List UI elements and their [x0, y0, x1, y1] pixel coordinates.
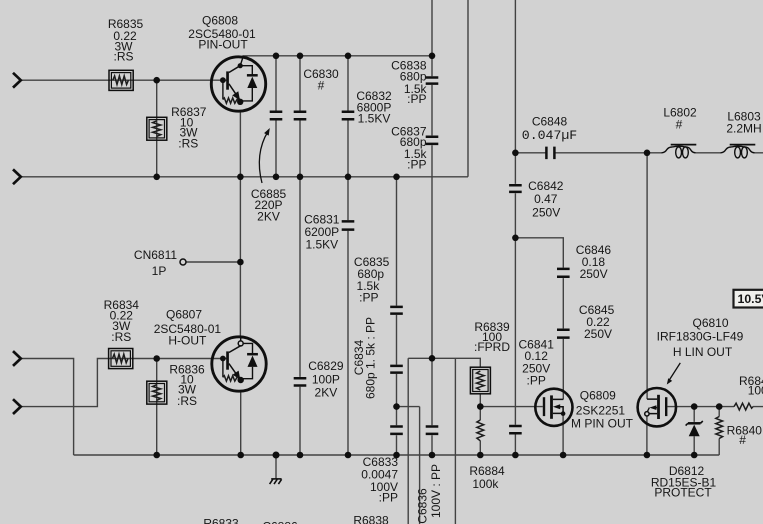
- svg-text::RS: :RS: [111, 330, 131, 344]
- wire lower input B to R6834 and Q6807 base: [21, 359, 227, 407]
- svg-text:250V: 250V: [584, 327, 612, 341]
- capacitor C6848: [546, 147, 554, 160]
- wire Q6809 source to rail: [562, 414, 564, 455]
- svg-text:#: #: [318, 79, 325, 93]
- label Q6809: [571, 388, 634, 430]
- svg-text:0.047µF: 0.047µF: [522, 128, 577, 143]
- wire D6812 stubs: [693, 407, 695, 455]
- node dots emitter rail y177: [153, 174, 399, 181]
- wire emitter return top (rail to x468 riser): [21, 176, 468, 178]
- svg-text:1.5KV: 1.5KV: [305, 237, 338, 251]
- node dot x480 y406: [477, 403, 484, 410]
- svg-text:R6884: R6884: [469, 464, 505, 478]
- label R6835: [108, 17, 144, 64]
- capacitor C6829: [294, 378, 307, 385]
- node dot x515 y238: [512, 235, 519, 242]
- wire flyback node y153: [515, 152, 763, 154]
- label C6846: [576, 243, 612, 281]
- svg-text:C6848: C6848: [532, 115, 568, 129]
- svg-text:10.5V: 10.5V: [738, 292, 763, 306]
- wire Q6808 emitter to Q6807 collector: [239, 111, 241, 337]
- wire C6830 C6829 branch: [299, 56, 301, 455]
- resistor R6839: [470, 367, 490, 394]
- wire R6837 branch: [156, 80, 158, 177]
- svg-text::RS: :RS: [113, 50, 133, 64]
- svg-text:2KV: 2KV: [315, 386, 338, 400]
- svg-text:M PIN OUT: M PIN OUT: [571, 416, 634, 430]
- label R6839: [474, 320, 510, 354]
- wire riser x515 C6842 C6841: [514, 0, 516, 455]
- resistor R6837: [147, 117, 167, 140]
- label C6885: [251, 187, 287, 224]
- svg-text:250V: 250V: [580, 267, 608, 281]
- svg-text:C6842: C6842: [528, 179, 564, 193]
- resistor R6836: [147, 381, 167, 404]
- wire ground stub: [275, 455, 277, 479]
- label R6840: [727, 423, 763, 446]
- node dot wire1 R6837: [153, 77, 160, 84]
- svg-text:2.2MH: 2.2MH: [726, 122, 761, 136]
- capacitor C6838: [426, 78, 439, 84]
- label C6837: [391, 125, 427, 172]
- svg-text:#: #: [739, 433, 746, 447]
- resistor R6840: [716, 417, 723, 439]
- wire node y406 left segment: [397, 406, 420, 408]
- mosfet Q6809: [535, 389, 572, 426]
- svg-text::PP: :PP: [379, 491, 398, 505]
- svg-text:100k: 100k: [472, 477, 499, 491]
- svg-text::PP: :PP: [527, 373, 546, 387]
- node dot CN6811 junction: [237, 259, 244, 266]
- wire gate net Q6810 right: [667, 406, 763, 408]
- svg-text:100V : PP: 100V : PP: [429, 464, 443, 518]
- wire C6838 C6837 C6836 riser x432: [431, 0, 433, 455]
- svg-text:H LIN OUT: H LIN OUT: [673, 345, 733, 359]
- capacitor C6885: [270, 112, 283, 119]
- svg-text:100P: 100P: [312, 373, 340, 387]
- svg-text:C6836: C6836: [415, 488, 429, 524]
- label C6829: [308, 359, 344, 400]
- node dots flyback y153: [512, 150, 650, 157]
- node dots bottom rail: [153, 452, 697, 459]
- resistor R6835: [109, 70, 133, 90]
- wire drop x455.4 to bottom edge: [454, 358, 456, 524]
- wire gate drive Q6809: [480, 406, 543, 408]
- wire drop x419.6 to bottom edge: [419, 407, 421, 524]
- svg-text:PROTECT: PROTECT: [654, 486, 712, 500]
- label C6831: [304, 213, 340, 252]
- label R6837: [171, 105, 207, 150]
- svg-text::RS: :RS: [178, 137, 198, 151]
- capacitor C6833: [390, 427, 403, 434]
- svg-text:C6829: C6829: [308, 359, 344, 373]
- label C6836 rotated: [415, 464, 443, 524]
- label C6830: [303, 67, 339, 92]
- svg-text::PP: :PP: [407, 92, 426, 106]
- ground: [270, 479, 282, 484]
- label L6802: [663, 106, 697, 132]
- wire R6840 stubs: [718, 407, 720, 455]
- label C6838: [391, 58, 427, 106]
- wire drop x408.2 to bottom edge: [407, 358, 409, 524]
- label C6833: [361, 455, 398, 505]
- svg-text:C6886: C6886: [262, 520, 298, 524]
- label R6884: [469, 464, 505, 491]
- svg-text:100: 100: [748, 384, 763, 398]
- capacitor C6837: [426, 137, 439, 144]
- capacitor C6835: [390, 307, 403, 314]
- svg-text:Q6810: Q6810: [692, 316, 728, 330]
- svg-text:0.47: 0.47: [534, 192, 558, 206]
- wire CN6811 link: [186, 261, 240, 263]
- wire y358 link segment: [408, 358, 480, 367]
- capacitor C6845: [557, 330, 570, 338]
- resistor R6841: [734, 403, 753, 410]
- wire riser x468 to top edge: [467, 0, 469, 177]
- capacitor C6841: [509, 426, 522, 433]
- input chevron 1: [13, 73, 21, 88]
- zener diode D6812: [686, 421, 703, 436]
- label C6842: [528, 179, 564, 220]
- capacitor C6836: [426, 427, 439, 434]
- connector CN6811: [180, 259, 186, 265]
- svg-text:1.5KV: 1.5KV: [358, 111, 391, 125]
- label D6812: [651, 464, 717, 500]
- label Q6807: [154, 308, 222, 348]
- input chevron 3: [13, 351, 21, 366]
- wire bottom rail: [74, 454, 720, 456]
- node dots gate net right: [691, 403, 723, 410]
- capacitor C6842: [509, 185, 522, 192]
- node dot x432 y358: [429, 355, 436, 362]
- pointer arrow Q6810: [667, 363, 681, 385]
- label R6836: [169, 362, 205, 408]
- wire base drive top (net to Q6808 base): [21, 79, 227, 81]
- node dot wire3 R6836: [153, 355, 160, 362]
- capacitor C6832: [342, 112, 355, 119]
- svg-text:680p 1. 5k : PP: 680p 1. 5k : PP: [363, 317, 377, 399]
- wire lower input A to bottom rail: [21, 359, 74, 456]
- label CN6811: [134, 248, 177, 278]
- inductor L6802: [662, 145, 697, 158]
- svg-text::RS: :RS: [177, 394, 197, 408]
- wire R6839 to R6884 column: [479, 394, 481, 455]
- svg-text:R6833: R6833: [203, 517, 239, 524]
- svg-text:1P: 1P: [152, 264, 167, 278]
- label C6848: [522, 115, 577, 143]
- wire C6832 C6831 branch: [347, 56, 349, 455]
- svg-text:IRF1830G-LF49: IRF1830G-LF49: [657, 330, 744, 344]
- svg-text:#: #: [676, 118, 683, 132]
- capacitor C6846: [557, 269, 570, 277]
- mosfet Q6810: [638, 388, 676, 426]
- svg-text:PIN-OUT: PIN-OUT: [198, 37, 248, 51]
- svg-text:Q6808: Q6808: [202, 14, 238, 28]
- svg-text:2KV: 2KV: [257, 209, 280, 223]
- svg-text::PP: :PP: [407, 157, 426, 171]
- label R6841 cut: [739, 374, 763, 397]
- wire Q6807 emitter to bottom rail: [240, 391, 242, 455]
- capacitor C6831: [342, 221, 355, 229]
- wire R6836 branch: [156, 359, 158, 456]
- node dot x396 y406: [393, 403, 400, 410]
- capacitor C6834: [390, 366, 403, 373]
- label R6834: [104, 298, 140, 344]
- svg-text::FPRD: :FPRD: [474, 340, 510, 354]
- svg-text:H-OUT: H-OUT: [168, 333, 207, 347]
- transistor Q6807: [212, 337, 266, 391]
- wire Q6810 drain riser: [646, 153, 648, 399]
- label C6835: [354, 255, 390, 305]
- svg-text:Q6809: Q6809: [580, 388, 616, 402]
- svg-text::PP: :PP: [359, 291, 378, 305]
- input chevron 2: [13, 169, 21, 184]
- svg-text:CN6811: CN6811: [134, 248, 177, 262]
- label Q6810: [657, 316, 744, 359]
- label C6845: [579, 303, 615, 341]
- input chevron 4: [13, 399, 21, 414]
- capacitor C6830: [294, 112, 307, 119]
- label C6832: [356, 89, 392, 125]
- label C6834 rotated: [352, 317, 378, 399]
- pointer arrow C6885: [259, 128, 269, 183]
- svg-text:R6838: R6838: [353, 514, 389, 524]
- label C6841: [519, 337, 555, 387]
- inductor L6803: [721, 145, 756, 158]
- label L6803: [726, 110, 761, 136]
- resistor R6834: [109, 349, 133, 369]
- wire C6846 dogleg: [515, 238, 563, 400]
- wire Q6810 source to rail: [646, 416, 648, 455]
- label Q6808: [188, 14, 256, 52]
- node dots collector rail: [273, 53, 436, 60]
- resistor R6884: [477, 420, 484, 441]
- transistor Q6808: [211, 57, 265, 112]
- wire C6835 C6834 C6833 branch: [396, 177, 398, 455]
- wire collector rail top: [243, 55, 433, 57]
- callout box 10.5V: [734, 290, 763, 308]
- svg-text:Q6807: Q6807: [166, 308, 202, 322]
- svg-text:250V: 250V: [532, 206, 560, 220]
- wire C6885 branch: [275, 56, 277, 177]
